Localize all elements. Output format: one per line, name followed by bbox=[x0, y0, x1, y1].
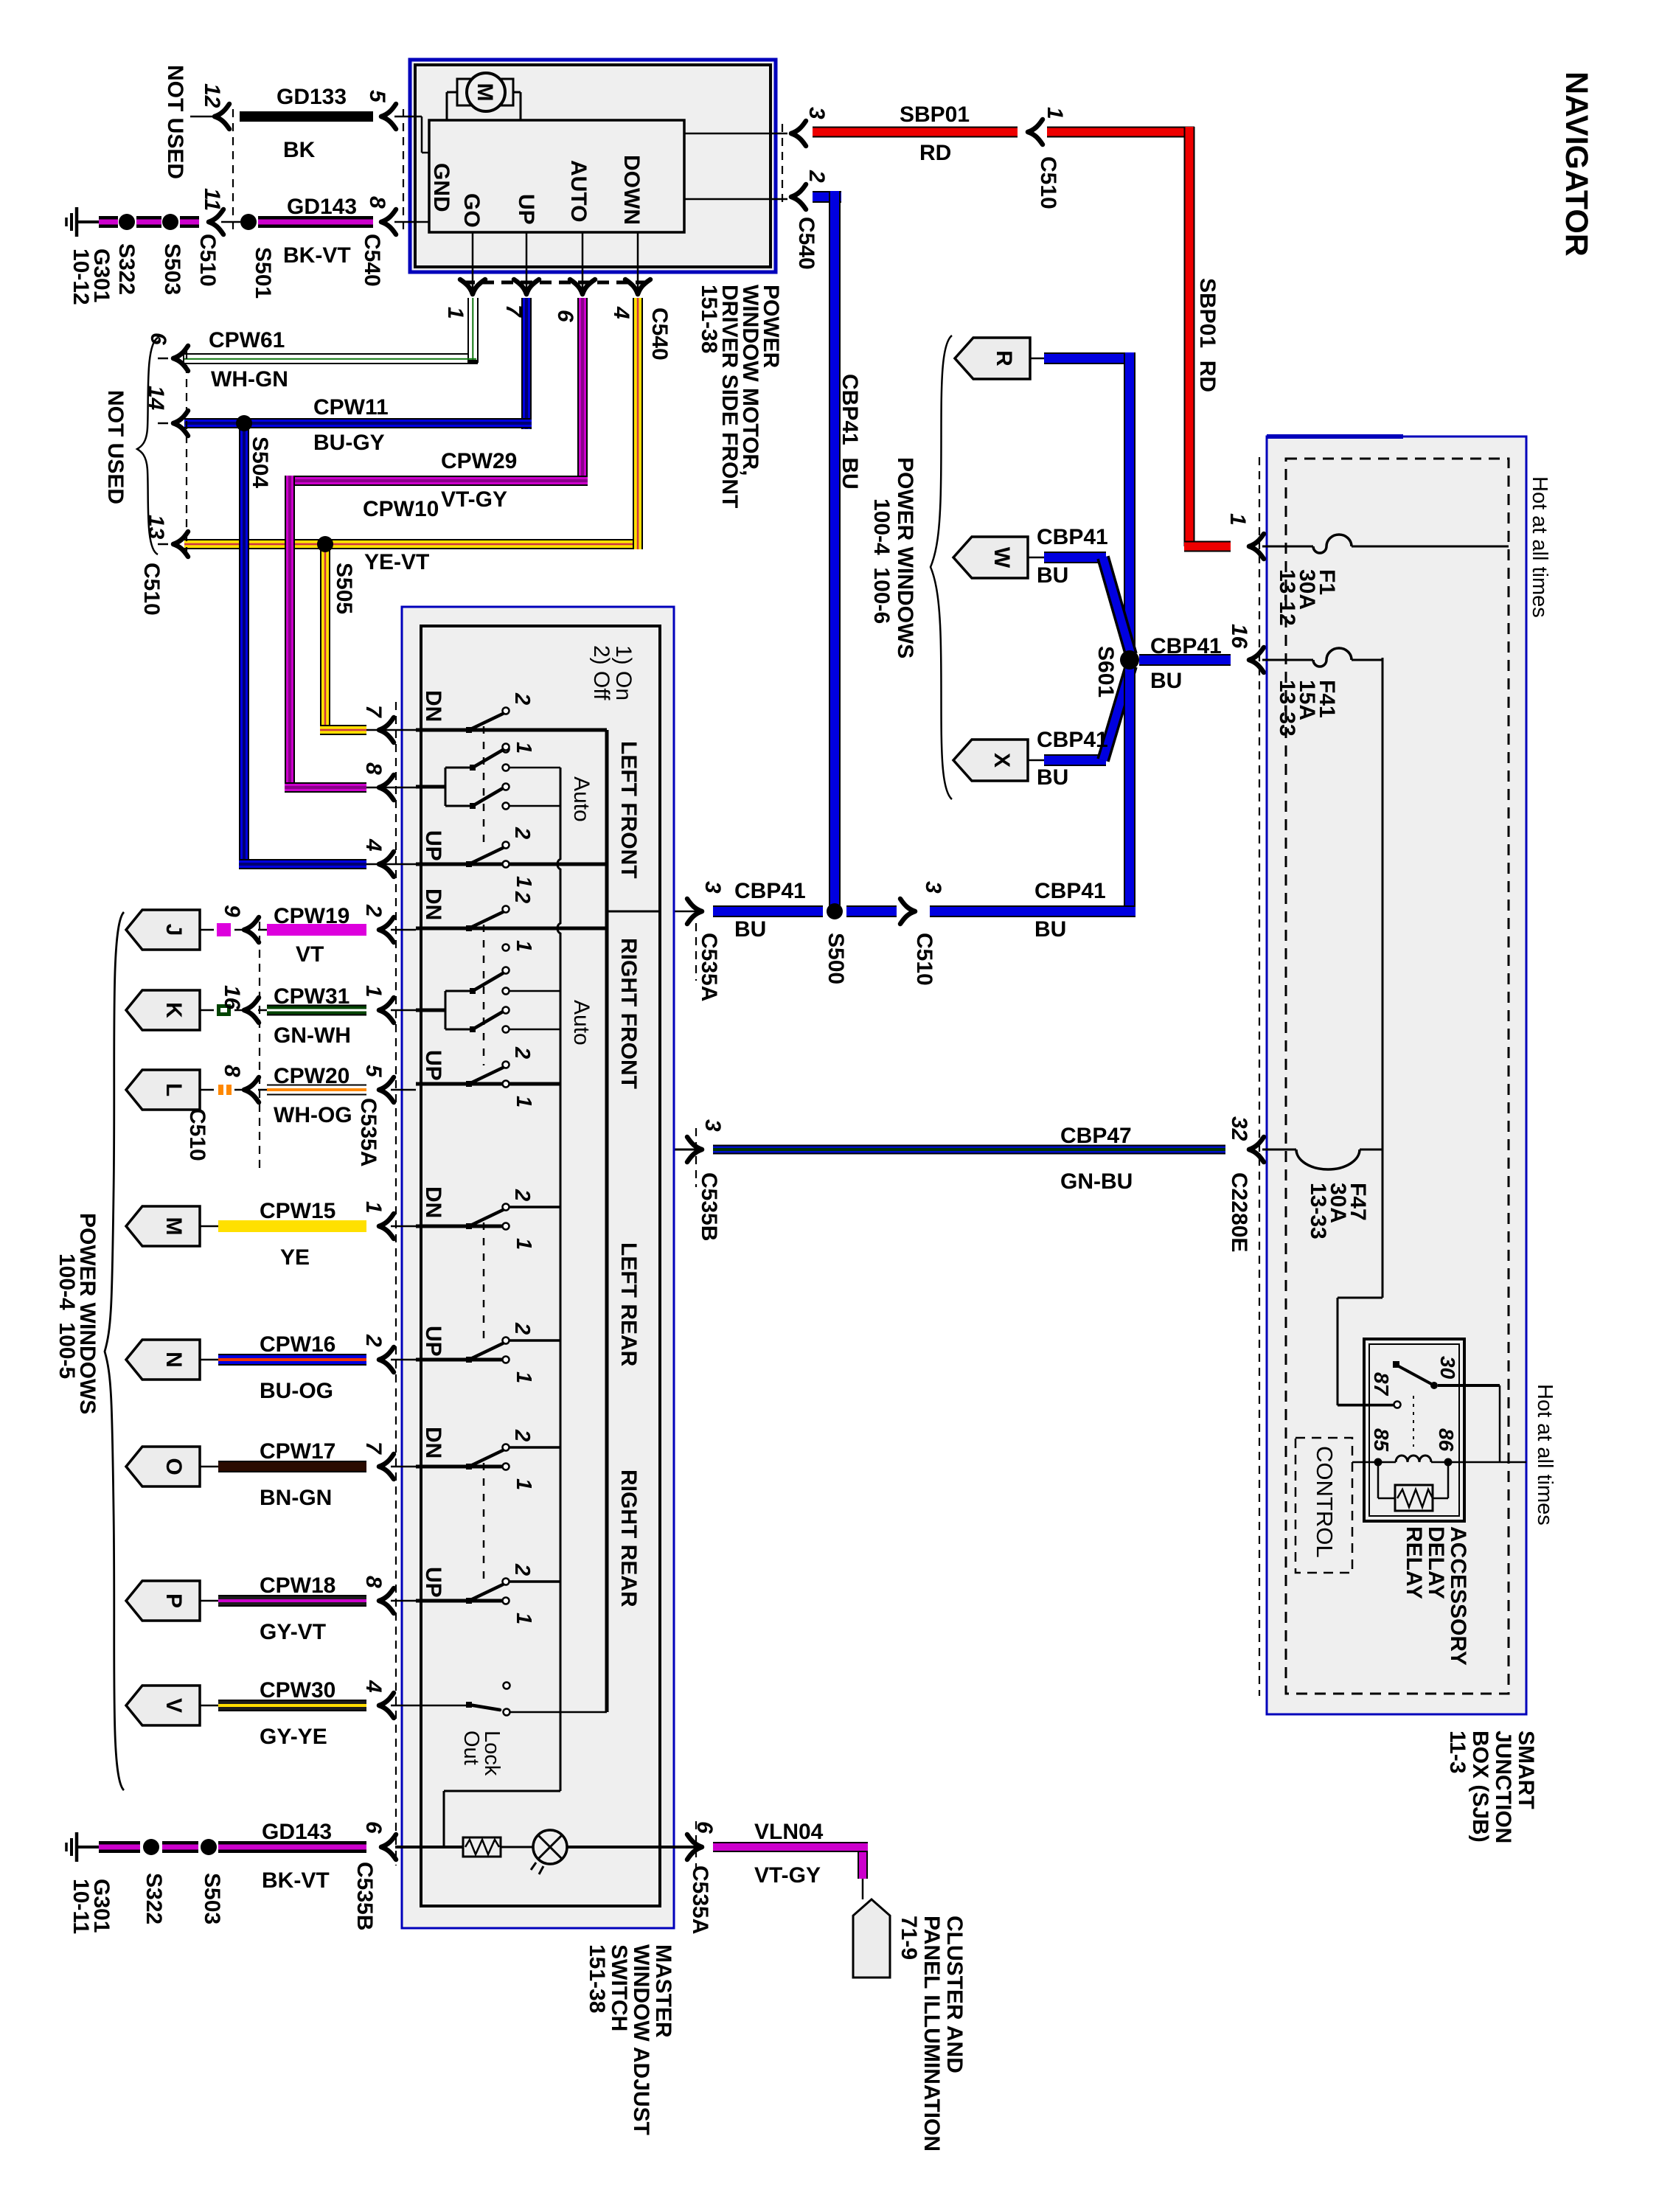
svg-text:DN: DN bbox=[421, 1186, 445, 1218]
svg-text:4: 4 bbox=[361, 838, 386, 852]
svg-text:BU-GY: BU-GY bbox=[313, 431, 385, 455]
svg-text:GY-VT: GY-VT bbox=[260, 1620, 326, 1644]
svg-text:1: 1 bbox=[512, 1478, 535, 1490]
svg-text:L: L bbox=[161, 1083, 186, 1096]
svg-text:C535B: C535B bbox=[352, 1862, 377, 1930]
svg-text:DOWN: DOWN bbox=[619, 155, 644, 225]
svg-text:VLN04: VLN04 bbox=[754, 1820, 824, 1844]
svg-text:3: 3 bbox=[921, 881, 945, 894]
svg-text:G30110-11: G30110-11 bbox=[69, 1879, 114, 1934]
svg-text:1: 1 bbox=[512, 742, 535, 754]
svg-text:BU-OG: BU-OG bbox=[260, 1379, 333, 1403]
svg-text:C510: C510 bbox=[1036, 156, 1060, 209]
svg-text:UP: UP bbox=[421, 1050, 445, 1081]
svg-text:3: 3 bbox=[804, 107, 829, 119]
svg-text:C535A: C535A bbox=[688, 1865, 712, 1934]
svg-text:UP: UP bbox=[421, 830, 445, 861]
svg-text:1: 1 bbox=[1225, 513, 1250, 526]
svg-text:DN: DN bbox=[421, 690, 445, 722]
svg-text:CPW19: CPW19 bbox=[274, 904, 349, 928]
svg-text:CBP47: CBP47 bbox=[1060, 1124, 1132, 1148]
svg-text:CPW61: CPW61 bbox=[209, 328, 285, 352]
svg-text:RD: RD bbox=[919, 141, 951, 165]
svg-text:Auto: Auto bbox=[569, 1000, 594, 1046]
svg-text:1) On2) Off: 1) On2) Off bbox=[589, 645, 636, 700]
svg-text:SBP01: SBP01 bbox=[900, 102, 970, 127]
svg-text:CPW20: CPW20 bbox=[274, 1064, 349, 1088]
svg-text:CPW30: CPW30 bbox=[260, 1678, 335, 1703]
svg-text:C540: C540 bbox=[360, 234, 384, 287]
svg-text:J: J bbox=[161, 924, 186, 936]
svg-text:Hot at all times: Hot at all times bbox=[1533, 1384, 1557, 1526]
svg-text:DN: DN bbox=[421, 1427, 445, 1458]
svg-text:GO: GO bbox=[459, 193, 484, 228]
svg-text:CPW15: CPW15 bbox=[260, 1199, 335, 1223]
svg-text:BK-VT: BK-VT bbox=[283, 243, 351, 268]
svg-text:11: 11 bbox=[200, 188, 224, 211]
svg-text:100-4 100-6: 100-4 100-6 bbox=[869, 498, 894, 624]
svg-text:CPW17: CPW17 bbox=[260, 1439, 335, 1464]
svg-text:CPW10: CPW10 bbox=[363, 497, 439, 521]
svg-text:CBP41: CBP41 bbox=[1034, 879, 1106, 903]
svg-text:1: 1 bbox=[512, 876, 535, 888]
svg-text:V: V bbox=[161, 1698, 186, 1713]
svg-text:VT: VT bbox=[296, 942, 324, 967]
svg-text:UP: UP bbox=[421, 1326, 445, 1357]
svg-text:WH-OG: WH-OG bbox=[274, 1103, 352, 1127]
svg-text:2: 2 bbox=[804, 170, 829, 183]
svg-text:UP: UP bbox=[421, 1567, 445, 1598]
svg-text:S504: S504 bbox=[248, 437, 272, 488]
svg-text:C535B: C535B bbox=[697, 1172, 721, 1241]
svg-text:G30110-12: G30110-12 bbox=[69, 248, 114, 305]
svg-text:8: 8 bbox=[361, 1576, 386, 1588]
svg-text:C510: C510 bbox=[912, 933, 936, 986]
svg-text:SBP01 RD: SBP01 RD bbox=[1195, 278, 1220, 392]
svg-text:X: X bbox=[990, 753, 1014, 768]
svg-text:Hot at all times: Hot at all times bbox=[1528, 476, 1551, 618]
svg-text:UP: UP bbox=[514, 194, 538, 225]
svg-text:AUTO: AUTO bbox=[566, 160, 591, 222]
svg-text:CONTROL: CONTROL bbox=[1312, 1446, 1338, 1558]
svg-text:CBP41 BU: CBP41 BU bbox=[838, 374, 862, 490]
svg-text:6: 6 bbox=[146, 333, 170, 345]
svg-text:7: 7 bbox=[361, 1441, 386, 1455]
svg-text:100-4 100-5: 100-4 100-5 bbox=[55, 1253, 79, 1379]
svg-text:S322: S322 bbox=[114, 243, 139, 295]
svg-text:4: 4 bbox=[361, 1680, 386, 1693]
svg-text:BU: BU bbox=[1037, 563, 1068, 588]
svg-text:16: 16 bbox=[220, 985, 244, 1010]
svg-text:YE: YE bbox=[280, 1245, 310, 1270]
svg-text:GD143: GD143 bbox=[287, 195, 357, 219]
svg-text:16: 16 bbox=[1227, 624, 1251, 649]
svg-text:C540: C540 bbox=[647, 307, 672, 361]
svg-text:LEFT FRONT: LEFT FRONT bbox=[616, 741, 641, 879]
svg-text:2: 2 bbox=[510, 1563, 534, 1576]
svg-text:C535A: C535A bbox=[697, 933, 721, 1001]
svg-text:WH-GN: WH-GN bbox=[211, 367, 288, 392]
svg-text:1: 1 bbox=[512, 1096, 535, 1107]
svg-text:30: 30 bbox=[1436, 1356, 1459, 1380]
svg-text:R: R bbox=[992, 350, 1016, 366]
svg-text:GD143: GD143 bbox=[262, 1820, 332, 1844]
svg-text:BU: BU bbox=[1037, 765, 1068, 790]
svg-text:CPW16: CPW16 bbox=[260, 1332, 335, 1357]
svg-text:GND: GND bbox=[429, 163, 453, 212]
svg-text:W: W bbox=[990, 547, 1014, 568]
svg-text:POWER WINDOWS: POWER WINDOWS bbox=[893, 457, 917, 658]
svg-text:1: 1 bbox=[361, 985, 386, 998]
svg-text:CPW11: CPW11 bbox=[313, 395, 389, 420]
svg-text:M: M bbox=[473, 83, 497, 102]
svg-text:1: 1 bbox=[512, 1613, 535, 1624]
svg-text:1: 1 bbox=[512, 1238, 535, 1250]
svg-text:87: 87 bbox=[1370, 1372, 1393, 1397]
svg-text:13: 13 bbox=[144, 515, 168, 540]
svg-text:1: 1 bbox=[512, 1371, 535, 1383]
svg-text:DN: DN bbox=[421, 888, 445, 920]
svg-text:VT-GY: VT-GY bbox=[441, 487, 507, 512]
svg-text:BN-GN: BN-GN bbox=[260, 1486, 332, 1510]
svg-text:BK: BK bbox=[283, 138, 316, 162]
svg-text:S503: S503 bbox=[160, 243, 184, 295]
svg-text:C540: C540 bbox=[794, 217, 818, 270]
svg-text:6: 6 bbox=[361, 1821, 386, 1834]
svg-text:CPW31: CPW31 bbox=[274, 984, 349, 1009]
svg-text:2: 2 bbox=[361, 1334, 386, 1347]
svg-text:YE-VT: YE-VT bbox=[364, 550, 429, 574]
svg-text:C510: C510 bbox=[195, 234, 220, 287]
svg-text:4: 4 bbox=[609, 306, 633, 319]
svg-text:LEFT REAR: LEFT REAR bbox=[616, 1242, 641, 1367]
svg-text:2: 2 bbox=[510, 692, 534, 705]
svg-text:85: 85 bbox=[1370, 1428, 1393, 1452]
svg-text:BU: BU bbox=[734, 917, 766, 942]
svg-text:C2280E: C2280E bbox=[1227, 1172, 1251, 1252]
svg-text:S505: S505 bbox=[332, 563, 356, 614]
svg-text:12: 12 bbox=[200, 83, 224, 108]
svg-text:86: 86 bbox=[1435, 1428, 1458, 1452]
svg-text:C535A: C535A bbox=[356, 1098, 380, 1166]
svg-text:C510: C510 bbox=[185, 1108, 209, 1161]
svg-text:NOT USED: NOT USED bbox=[103, 390, 128, 504]
svg-text:5: 5 bbox=[365, 90, 389, 103]
svg-text:CBP41: CBP41 bbox=[1037, 525, 1108, 549]
svg-text:NAVIGATOR: NAVIGATOR bbox=[1559, 72, 1594, 257]
svg-text:BU: BU bbox=[1034, 917, 1066, 942]
svg-text:GN-BU: GN-BU bbox=[1060, 1169, 1133, 1194]
svg-text:N: N bbox=[161, 1352, 186, 1368]
svg-text:GD133: GD133 bbox=[276, 85, 347, 109]
svg-text:Auto: Auto bbox=[569, 776, 594, 822]
svg-text:1: 1 bbox=[512, 940, 535, 952]
svg-text:K: K bbox=[161, 1002, 186, 1018]
svg-text:VT-GY: VT-GY bbox=[754, 1863, 821, 1888]
svg-text:9: 9 bbox=[220, 905, 244, 917]
svg-text:2: 2 bbox=[510, 1046, 534, 1059]
svg-text:2: 2 bbox=[361, 904, 386, 917]
svg-text:NOT USED: NOT USED bbox=[163, 65, 187, 179]
svg-text:1: 1 bbox=[361, 1201, 386, 1214]
svg-text:7: 7 bbox=[361, 705, 386, 718]
svg-text:S601: S601 bbox=[1093, 646, 1118, 698]
svg-text:5: 5 bbox=[361, 1065, 386, 1078]
svg-text:CPW18: CPW18 bbox=[260, 1573, 335, 1598]
svg-text:8: 8 bbox=[220, 1065, 244, 1077]
svg-text:CBP41: CBP41 bbox=[734, 879, 806, 903]
svg-text:BK-VT: BK-VT bbox=[262, 1868, 330, 1893]
svg-text:3: 3 bbox=[700, 881, 725, 894]
svg-text:8: 8 bbox=[361, 762, 386, 775]
svg-text:BU: BU bbox=[1150, 669, 1182, 693]
svg-text:RIGHT FRONT: RIGHT FRONT bbox=[616, 938, 641, 1089]
svg-text:S500: S500 bbox=[824, 933, 848, 984]
svg-text:M: M bbox=[161, 1217, 186, 1236]
svg-text:2: 2 bbox=[510, 827, 534, 839]
svg-text:6: 6 bbox=[553, 310, 577, 322]
svg-text:S501: S501 bbox=[251, 247, 275, 299]
svg-text:2: 2 bbox=[510, 1429, 534, 1441]
svg-text:1: 1 bbox=[1043, 107, 1067, 119]
svg-text:2: 2 bbox=[510, 1189, 534, 1201]
svg-text:CBP41: CBP41 bbox=[1150, 634, 1222, 658]
svg-text:8: 8 bbox=[365, 196, 389, 209]
svg-text:P: P bbox=[161, 1593, 186, 1608]
svg-text:GY-YE: GY-YE bbox=[260, 1725, 327, 1749]
svg-text:C510: C510 bbox=[139, 563, 164, 616]
svg-text:3: 3 bbox=[700, 1119, 725, 1132]
svg-text:RIGHT REAR: RIGHT REAR bbox=[616, 1470, 641, 1607]
svg-text:O: O bbox=[161, 1458, 186, 1475]
svg-text:2: 2 bbox=[510, 891, 534, 903]
svg-text:CPW29: CPW29 bbox=[441, 449, 517, 473]
svg-text:GN-WH: GN-WH bbox=[274, 1023, 351, 1048]
svg-text:32: 32 bbox=[1227, 1116, 1251, 1141]
svg-text:CBP41: CBP41 bbox=[1037, 728, 1108, 752]
svg-text:S503: S503 bbox=[200, 1873, 224, 1924]
svg-text:2: 2 bbox=[510, 1322, 534, 1335]
svg-text:S322: S322 bbox=[142, 1873, 166, 1924]
svg-text:1: 1 bbox=[443, 307, 467, 319]
